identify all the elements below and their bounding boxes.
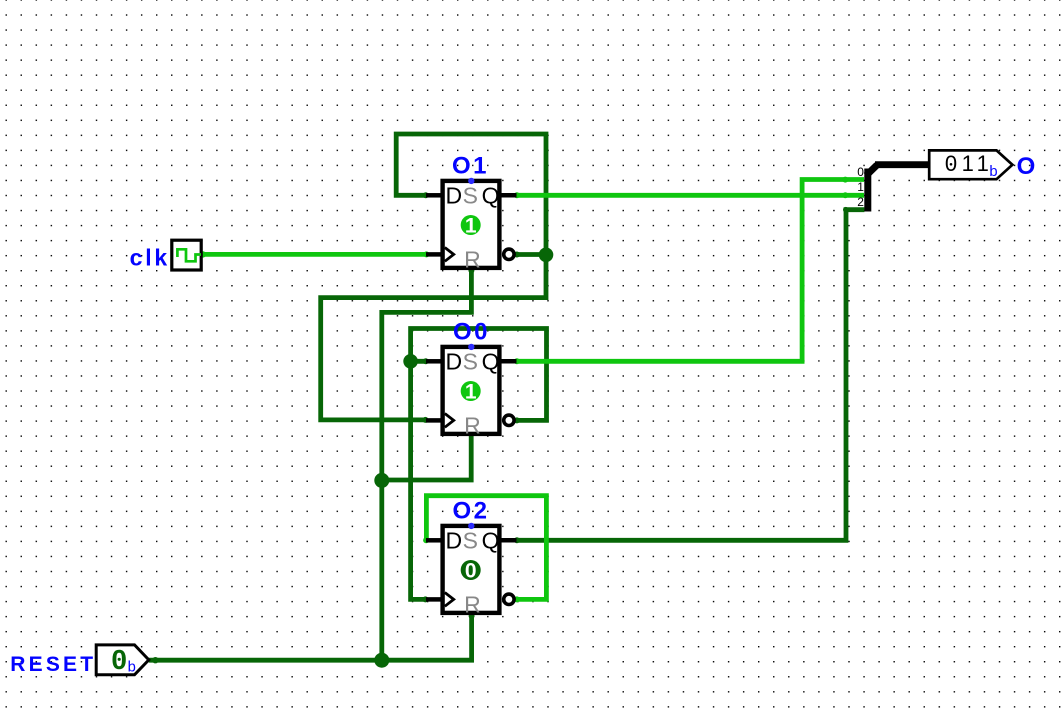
- svg-text:b: b: [989, 164, 998, 181]
- svg-text:O1: O1: [452, 153, 489, 180]
- svg-text:1: 1: [465, 215, 477, 238]
- svg-text:clk: clk: [130, 245, 170, 271]
- svg-text:0: 0: [465, 560, 477, 583]
- svg-text:O2: O2: [452, 498, 489, 525]
- svg-text:O: O: [1017, 153, 1036, 180]
- svg-text:b: b: [127, 660, 136, 677]
- svg-text:2: 2: [857, 195, 864, 209]
- svg-text:1: 1: [977, 151, 989, 176]
- svg-text:1: 1: [465, 381, 477, 404]
- svg-text:O0: O0: [453, 319, 490, 346]
- svg-text:0: 0: [857, 165, 864, 179]
- svg-text:1: 1: [962, 151, 974, 176]
- svg-text:1: 1: [857, 180, 864, 194]
- svg-text:RESET: RESET: [10, 653, 96, 676]
